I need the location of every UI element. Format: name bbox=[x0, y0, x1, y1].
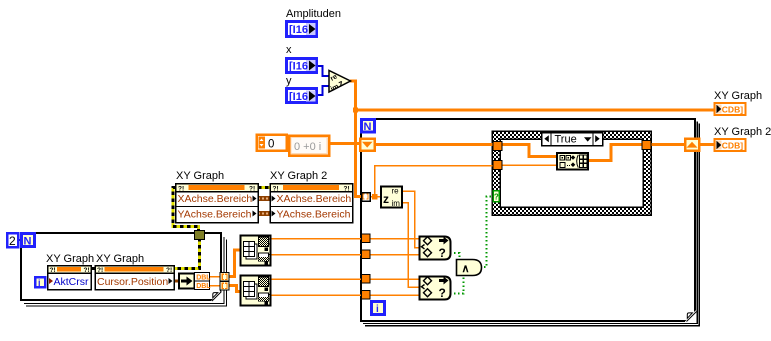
wire: 0+0i constant to left shift register bbox=[330, 142, 360, 145]
svg-text:i: i bbox=[376, 304, 379, 315]
node: refnum tunnel (olive) on small loop top bbox=[195, 231, 205, 240]
node: property node XY Graph (Cursor.Position) bbox=[95, 266, 174, 290]
svg-text:?: ? bbox=[439, 246, 446, 260]
node: iteration i (big loop) bbox=[372, 302, 385, 316]
svg-text:∧: ∧ bbox=[462, 263, 470, 275]
svg-text:z: z bbox=[383, 192, 389, 206]
svg-text:i: i bbox=[38, 278, 41, 288]
svg-text:0 +0 i: 0 +0 i bbox=[294, 141, 321, 153]
svg-text:?!: ?! bbox=[166, 267, 172, 274]
node: unbundle arrow box bbox=[179, 274, 195, 289]
svg-text:?!: ?! bbox=[344, 186, 350, 193]
wire: index array outputs to big loop tunnels and to in-range inputs bbox=[271, 239, 419, 296]
wire: Cursor.Position to unbundle (brown stub) bbox=[174, 280, 179, 283]
svg-text:0: 0 bbox=[268, 139, 274, 151]
node: property node XY Graph (AktCrsr) bbox=[48, 266, 92, 290]
node: loop count N (big loop) bbox=[362, 120, 375, 134]
node: complex constant 0 +0 i bbox=[289, 136, 329, 156]
node: shift register left bbox=[360, 139, 375, 151]
dog-ear small loop bbox=[211, 291, 224, 303]
svg-text:?!: ?! bbox=[84, 267, 90, 274]
svg-text:[I16: [I16 bbox=[289, 61, 308, 73]
case structure border bbox=[492, 131, 651, 215]
svg-text:?!: ?! bbox=[249, 186, 255, 193]
svg-text:XY Graph: XY Graph bbox=[46, 253, 94, 265]
svg-text:Cursor.Position: Cursor.Position bbox=[97, 276, 168, 288]
wire: z re output to in-range 1 bbox=[402, 191, 419, 248]
wire: complex array from triangle down-left vertical bbox=[350, 81, 362, 197]
svg-text:CDB]: CDB] bbox=[722, 141, 743, 151]
svg-text:Amplituden: Amplituden bbox=[286, 8, 341, 20]
node: case selector label bbox=[542, 133, 603, 146]
node: big loop left tunnels bbox=[362, 234, 371, 299]
node: z complex to re/im bbox=[381, 187, 402, 209]
svg-text:XY Graph 2: XY Graph 2 bbox=[714, 126, 771, 138]
node: terminal Amplituden [I16] bbox=[287, 22, 317, 37]
svg-text:True: True bbox=[555, 134, 577, 146]
svg-text:?: ? bbox=[439, 286, 446, 300]
svg-text:XY Graph: XY Graph bbox=[96, 253, 144, 265]
dog-ear big loop bbox=[685, 311, 698, 324]
node: Re/Im to Complex triangle bbox=[329, 71, 351, 94]
node: index array 2 bbox=[241, 276, 271, 306]
svg-text:?!: ?! bbox=[273, 186, 279, 193]
node: case selector ? tunnel bbox=[493, 191, 499, 202]
wire: cluster wires between property nodes bbox=[258, 199, 270, 214]
svg-text:re: re bbox=[392, 187, 400, 196]
svg-text:?!: ?! bbox=[50, 267, 56, 274]
svg-text:XAchse.Bereich: XAchse.Bereich bbox=[178, 193, 253, 205]
svg-text:YAchse.Bereich: YAchse.Bereich bbox=[277, 209, 351, 221]
wire: shift register to case tunnel bbox=[375, 143, 496, 146]
node: case tunnels bbox=[493, 141, 651, 170]
wire: DBL to tunnels bbox=[210, 276, 221, 278]
node: constant 2 bbox=[7, 233, 18, 248]
wire: z im output to in-range 2 bbox=[402, 203, 419, 288]
svg-text:DBL: DBL bbox=[196, 274, 211, 281]
node: index array 1 bbox=[241, 236, 271, 266]
svg-text:im: im bbox=[392, 199, 401, 208]
svg-text:XY Graph 2: XY Graph 2 bbox=[270, 170, 327, 182]
wire: blue 2 to N bbox=[19, 239, 22, 241]
node: replace array subset bbox=[557, 153, 588, 170]
wire: replace array subset output to right case tunnel bbox=[588, 145, 645, 161]
svg-text:[I16: [I16 bbox=[289, 91, 308, 103]
for loop N2 (big, right) border bbox=[361, 119, 695, 321]
for loop N1 (small, bottom-left) border bbox=[21, 233, 221, 300]
svg-text:x: x bbox=[286, 44, 292, 56]
wire: long top wire to XY Graph bbox=[356, 109, 715, 112]
wire: blue x terminal to triangle bbox=[317, 66, 329, 76]
wire: small loop tunnels to index array nodes bbox=[229, 250, 240, 277]
node: indicator XY Graph [CDB] bbox=[715, 103, 746, 115]
node: in range and coerce 2 bbox=[420, 277, 451, 301]
wire: case tunnel to right shift register bbox=[648, 143, 686, 146]
wire: right shift register to XY Graph 2 bbox=[699, 143, 714, 146]
node: numeric constant 0 bbox=[257, 135, 287, 151]
node: shift register right bbox=[685, 139, 699, 151]
svg-text:[I16: [I16 bbox=[289, 24, 308, 36]
svg-text:?!: ?! bbox=[97, 267, 103, 274]
svg-text:AktCrsr: AktCrsr bbox=[54, 276, 90, 288]
node: junction dot z input bbox=[372, 194, 378, 200]
node: property node XY Graph (1) bbox=[176, 184, 259, 223]
svg-text:N: N bbox=[24, 236, 32, 248]
wire: inside case to replace array subset bbox=[500, 145, 557, 157]
node: indicator XY Graph 2 [CDB] bbox=[715, 139, 746, 151]
wire: dashed refnum yellow chain bbox=[91, 188, 270, 269]
svg-text:XAchse.Bereich: XAchse.Bereich bbox=[277, 193, 352, 205]
node: DBL output terminals bbox=[195, 273, 212, 290]
node: junction dot bbox=[353, 108, 358, 113]
node: AND gate bbox=[457, 260, 482, 276]
svg-text:XY Graph: XY Graph bbox=[176, 170, 224, 182]
svg-text:YAchse.Bereich: YAchse.Bereich bbox=[178, 209, 252, 221]
svg-text:y: y bbox=[286, 75, 292, 87]
wire: boolean dotted green bbox=[450, 197, 494, 294]
node: [] tunnel (z input) bbox=[362, 193, 371, 202]
node: loop count N (small loop) bbox=[22, 234, 35, 248]
svg-text:N: N bbox=[364, 121, 372, 133]
node: terminal x [I16] bbox=[287, 59, 317, 73]
svg-text:XY Graph: XY Graph bbox=[714, 90, 762, 102]
svg-text:?: ? bbox=[494, 193, 499, 202]
svg-text:CDB]: CDB] bbox=[722, 105, 743, 115]
node: terminal y [I16] bbox=[287, 89, 317, 104]
loop shadow lines bbox=[24, 122, 699, 326]
wire: blue y terminal to triangle bbox=[317, 86, 329, 95]
svg-text:?!: ?! bbox=[178, 186, 184, 193]
svg-text:DBL: DBL bbox=[196, 283, 211, 290]
node: property node XY Graph 2 bbox=[270, 184, 353, 223]
wire: scalar complex from tunnel to z node and up into case bbox=[370, 196, 382, 198]
svg-text:2: 2 bbox=[9, 234, 16, 248]
node: in range and coerce 1 bbox=[420, 237, 451, 261]
node: iteration i (small loop) bbox=[35, 277, 45, 288]
node: small loop [] tunnels bbox=[220, 273, 229, 291]
